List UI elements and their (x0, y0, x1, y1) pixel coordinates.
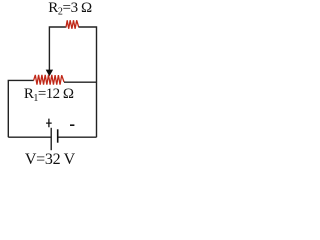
bottom wire right segment (58, 136, 96, 138)
battery positive plate (long bar) (50, 128, 52, 150)
label V=32 V (25, 151, 76, 168)
R1 left lead and left wall (8, 80, 34, 137)
resistor R2 (red zigzag) (66, 20, 79, 29)
svg-text:R1=12 Ω: R1=12 Ω (24, 86, 74, 104)
battery negative plate (short bar) (57, 129, 59, 142)
label R2=3 Ohm (48, 0, 92, 18)
svg-text:V=32 V: V=32 V (25, 151, 76, 168)
wire top-left segment and left drop to wiper (49, 27, 66, 71)
resistor R1 (red zigzag) (34, 75, 64, 85)
bottom wire left segment (8, 136, 51, 138)
wire top-right segment and right wall (79, 27, 97, 137)
plus sign (46, 119, 52, 128)
R1 right lead (64, 81, 97, 83)
wiper arrowhead (46, 70, 53, 77)
svg-text:R2=3 Ω: R2=3 Ω (48, 0, 92, 18)
minus sign (70, 124, 74, 126)
label R1=12 Ohm (24, 86, 74, 104)
